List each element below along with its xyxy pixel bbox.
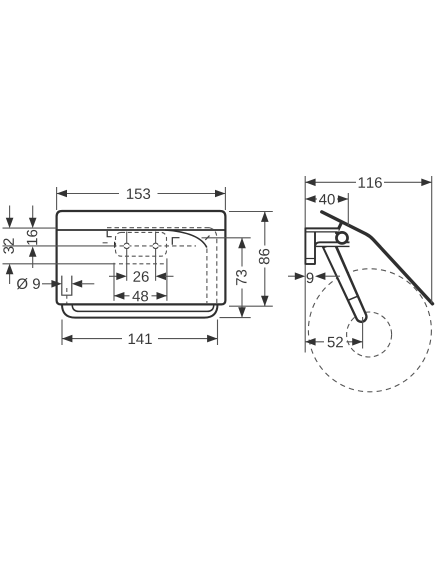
cassette bottom dashed line bbox=[119, 263, 167, 265]
dim 48 line bbox=[114, 295, 130, 297]
dim 32 arrows bbox=[9, 206, 11, 221]
dim 9 text bbox=[307, 273, 314, 284]
dim 116 line bbox=[305, 181, 356, 183]
recess solid curve bbox=[165, 230, 207, 248]
cassette dashed rect bbox=[116, 232, 167, 256]
dim 40 extension right bbox=[347, 193, 349, 226]
spindle circle left bbox=[124, 243, 129, 248]
dim 153 line bbox=[57, 193, 119, 195]
dim 86 text bbox=[259, 249, 270, 264]
dim 26 text bbox=[133, 271, 148, 282]
notch dash bbox=[103, 242, 108, 244]
roll holder arm inner white bbox=[325, 245, 366, 321]
dim 9 arrows bbox=[288, 275, 296, 277]
dim 52 arrows bbox=[305, 338, 315, 346]
toilet roll dashed circle bbox=[308, 269, 431, 392]
top arm band bbox=[306, 229, 339, 232]
dim 73 text bbox=[236, 270, 247, 285]
dim 48 arrows bbox=[114, 292, 124, 300]
wall line bbox=[304, 176, 306, 353]
cover flap bbox=[322, 212, 433, 304]
dim 153 arrow right bbox=[215, 190, 225, 198]
dim 40 text bbox=[319, 194, 335, 205]
dim 48 ref line left bbox=[113, 263, 115, 301]
bracket step band bbox=[315, 242, 350, 246]
dim 26 ref line right bbox=[155, 232, 157, 281]
dim 48 ref line right bbox=[166, 258, 168, 300]
dim 141 extension left bbox=[61, 320, 63, 346]
shelf line bbox=[57, 229, 225, 231]
dim 116 extension right bbox=[431, 176, 433, 303]
dim 52 text bbox=[328, 337, 343, 348]
dim 86 line bbox=[264, 212, 266, 246]
dim 26 ref line left bbox=[126, 232, 128, 281]
dim 16 text bbox=[27, 230, 38, 245]
dim 116 text bbox=[359, 177, 382, 188]
dim 52 spindle axis line bbox=[362, 317, 364, 349]
dim 73 line bbox=[241, 238, 243, 267]
dim Ø9 text bbox=[17, 278, 40, 289]
wall plate front edge bbox=[314, 232, 316, 264]
dim 40 line bbox=[305, 198, 317, 200]
dim 16 arrows bbox=[32, 206, 34, 221]
dim zero extension line (shelf) bbox=[3, 227, 57, 229]
dim Ø9 leader + arrows bbox=[42, 283, 53, 285]
dim 40 arrows bbox=[305, 195, 315, 203]
dim 153 arrow left bbox=[57, 190, 67, 198]
recess dashed vertical inner bbox=[206, 249, 208, 304]
hidden top edge dashed bbox=[107, 227, 209, 229]
dim 141 arrows bbox=[62, 335, 72, 343]
wall plate foot top bbox=[306, 258, 315, 260]
spindle circle right bbox=[153, 243, 158, 248]
dim 73 extension bottom bbox=[220, 317, 251, 319]
mounting slot bbox=[62, 276, 72, 296]
dim 141 text bbox=[129, 334, 152, 344]
dim 73 arrows bbox=[238, 238, 246, 248]
dim 26 arrows bbox=[109, 275, 118, 277]
hinge lip bbox=[337, 223, 342, 233]
dim 32 text bbox=[3, 238, 14, 253]
dim 86 extension top bbox=[229, 211, 273, 213]
dim 116 arrows bbox=[305, 179, 315, 187]
spindle centerline solid part bbox=[3, 245, 113, 247]
roll holder arm outer bbox=[322, 243, 368, 323]
dim 141 line bbox=[62, 338, 122, 340]
bottom bar outer bbox=[62, 305, 218, 318]
roll core dashed circle bbox=[347, 312, 392, 357]
dim 73 extension top bbox=[202, 237, 251, 239]
slot centerline dashed bbox=[66, 288, 68, 304]
arm joint line bbox=[348, 296, 358, 300]
dim 153 extension line right bbox=[224, 187, 226, 210]
wall plate back edge bbox=[304, 228, 306, 265]
wall plate bottom bbox=[306, 263, 315, 265]
spindle centerline dashed part bbox=[112, 245, 196, 247]
dim 32 bottom extension line bbox=[3, 263, 116, 265]
dim 48 text bbox=[132, 291, 148, 302]
bottom bar inner bbox=[72, 305, 214, 312]
dim 153 text bbox=[127, 188, 150, 199]
dim 153 extension line left bbox=[56, 187, 58, 210]
recess dashed corner + vertical right bbox=[209, 228, 217, 303]
pivot ring bbox=[336, 232, 347, 243]
bracket mark right bbox=[172, 238, 179, 245]
dim 86 extension bottom bbox=[229, 305, 273, 307]
dim 141 extension right bbox=[217, 320, 219, 346]
body outline bbox=[57, 211, 226, 304]
notch step left bbox=[107, 231, 115, 248]
dim 52 line bbox=[305, 341, 324, 343]
dim 86 arrows bbox=[261, 212, 269, 222]
